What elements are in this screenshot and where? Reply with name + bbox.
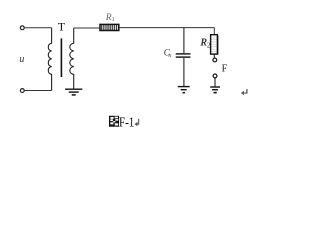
label u	[19, 54, 24, 65]
wire R2 to terminal F	[213, 54, 215, 58]
ground at transformer secondary	[65, 89, 82, 95]
ground below terminal F	[210, 87, 220, 93]
label R2	[199, 38, 211, 50]
terminal input bottom	[20, 89, 24, 93]
transformer T core	[60, 38, 62, 77]
svg-text:u: u	[19, 54, 24, 65]
svg-text:F-1: F-1	[119, 116, 134, 131]
caption glyph 图 (drawn)	[109, 116, 119, 127]
label Cx	[164, 48, 172, 59]
wire branch down to capacitor Cx	[183, 28, 185, 54]
resistor R2	[211, 35, 218, 55]
wire corner down to R2	[213, 28, 215, 35]
svg-text:T: T	[58, 20, 66, 34]
pilcrow return mark right margin	[241, 89, 247, 95]
wire from R1 to R2 corner (top rail)	[119, 27, 214, 29]
terminal input top	[20, 26, 24, 30]
resistor R1	[100, 24, 119, 30]
wire from transformer secondary to resistor R1	[74, 27, 100, 29]
svg-text:1: 1	[112, 16, 115, 23]
transformer T secondary winding	[70, 28, 74, 89]
svg-text:2: 2	[207, 41, 211, 49]
wire capacitor to ground	[183, 58, 185, 86]
caption text F-1	[119, 116, 134, 131]
label R1	[105, 13, 115, 23]
wire top-left from input terminal to transformer primary	[24, 27, 51, 29]
ground below capacitor	[178, 87, 190, 93]
wire bottom-left from input terminal to transformer primary	[24, 90, 51, 92]
pilcrow return mark after caption	[134, 119, 138, 127]
capacitor Cx top plate	[176, 53, 191, 55]
label T	[58, 20, 66, 34]
transformer T primary winding	[48, 28, 51, 91]
terminal lower (to ground)	[213, 74, 217, 78]
svg-text:F: F	[222, 63, 228, 74]
label F	[222, 63, 228, 74]
terminal F	[213, 58, 217, 62]
svg-text:x: x	[168, 52, 172, 59]
capacitor Cx bottom plate	[176, 56, 191, 58]
wire lower terminal to ground	[214, 78, 216, 87]
